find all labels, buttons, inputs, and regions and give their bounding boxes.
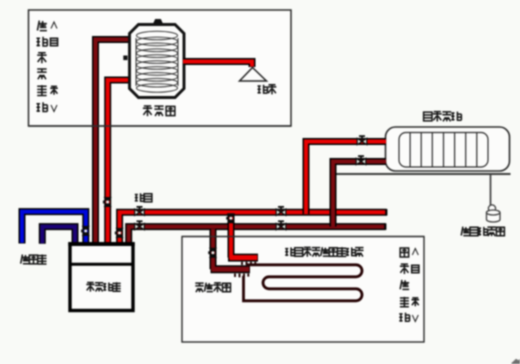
- tank coil: [136, 31, 178, 92]
- label 热水箱: [143, 106, 175, 116]
- wire: dark red floor-heating branch down + manifold: [211, 229, 251, 270]
- wire: dark red branch up to fan coil return: [333, 162, 386, 227]
- wire: heat pump top edge over pipes: [68, 242, 134, 246]
- valve V6 on fan coil return: [356, 156, 366, 165]
- label 热泵机组: [86, 282, 120, 291]
- thermostat 室内温控器: [486, 205, 500, 222]
- hot water tank 热水箱: [123, 20, 184, 98]
- heat pump unit 热泵机组: [70, 244, 133, 311]
- label 集分水器: [195, 283, 230, 293]
- fan coil unit outer shell: [386, 127, 510, 171]
- node: supply stub end cap: [385, 209, 387, 216]
- valve V7 on red tank riser: [103, 197, 111, 206]
- shower head 淋浴: [240, 68, 267, 82]
- fan coil grille: [399, 133, 488, 168]
- label 风机盘管: [424, 112, 462, 122]
- shelf line under fan coil: [333, 173, 511, 175]
- thermostat wire: [490, 175, 492, 208]
- label 阀门: [135, 193, 152, 202]
- valve V11 on bright red floor branch: [226, 214, 234, 223]
- node: return stub end cap: [384, 223, 386, 230]
- label 淋浴: [258, 85, 277, 95]
- wire: bright red pipe tank lower port down to heat pump: [108, 80, 131, 246]
- corner watermark fragment: [512, 359, 520, 364]
- valve V2 on dark red main: [135, 221, 145, 230]
- wire: floor box top border over pipes: [182, 236, 424, 238]
- wire: dark red pipe tank upper port down to heat pump: [96, 40, 132, 247]
- tank sensor tick: [123, 56, 127, 61]
- valve V1 on red main: [135, 207, 145, 216]
- valve V10 on dark red floor branch: [208, 248, 216, 257]
- wire: dark red main return (heat pump up, right to stub): [129, 227, 386, 246]
- wire: navy inner loop to ground (return): [42, 227, 75, 246]
- wire: bright red pipe tank right port to shower: [183, 62, 252, 68]
- wire: bright red branch up to fan coil supply: [306, 142, 386, 215]
- label 保温热辐射地板采暖: [285, 247, 363, 257]
- valve V5 on fan coil supply: [357, 136, 367, 145]
- label 室内温控器: [461, 227, 504, 236]
- label 地板采暖系统(可选) vertical right side: [399, 248, 419, 322]
- manifold teeth (collector 集分水器): [235, 262, 255, 278]
- valve V9 on red main riser: [115, 228, 123, 237]
- wire: bright red main supply (heat pump up, right to stub): [120, 212, 387, 246]
- wire: bright red floor-heating branch down + manifold: [228, 214, 258, 258]
- wire: hot-water box bottom border over pipes: [29, 125, 292, 127]
- box: domestic hot water system (top-left): [29, 10, 292, 126]
- floor heating serpentine coil: [244, 265, 363, 301]
- valve V3 on red main mid: [276, 207, 286, 216]
- label 生活热水系统(可选) vertical: [36, 21, 57, 113]
- valve V8 on blue pipe: [81, 226, 89, 235]
- valve V4 on dark red main mid: [276, 221, 286, 230]
- wire: blue outer loop to ground (supply): [22, 212, 86, 246]
- box: floor heating system (bottom): [182, 237, 424, 343]
- label 去地下: [21, 255, 47, 265]
